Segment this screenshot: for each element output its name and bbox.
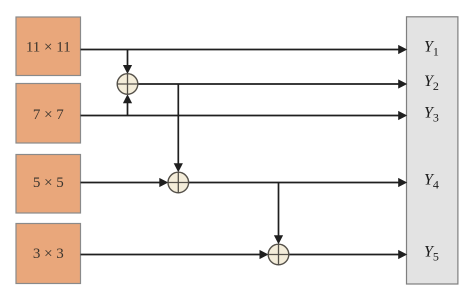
wire V2: rise from L2 into adder A1	[127, 103, 129, 116]
output panel	[407, 17, 458, 284]
adder A1	[117, 74, 138, 95]
wire L5: adder A3 output to Y5	[289, 254, 399, 256]
wire L3: adder A1 output to Y2	[138, 83, 399, 85]
arrow right into adder A3	[260, 250, 269, 259]
svg-text:11 × 11: 11 × 11	[26, 39, 71, 55]
wire L2: 7x7 output to Y3	[81, 115, 400, 117]
wire: 5x5 output into adder A2	[81, 182, 161, 184]
arrow right into adder A2	[159, 178, 168, 187]
arrow into Y3	[398, 111, 407, 120]
block 11x11	[16, 17, 81, 76]
arrow up into adder A1	[123, 94, 132, 103]
arrow down into adder A3	[274, 235, 283, 244]
arrow down into adder A1	[123, 65, 132, 74]
block 3x3	[16, 224, 81, 284]
arrow into Y2	[398, 79, 407, 88]
arrow into Y4	[398, 178, 407, 187]
arrow down into adder A2	[174, 163, 183, 172]
adder A3	[268, 244, 289, 265]
wire L1: 11x11 output to Y1	[81, 49, 400, 51]
svg-text:7 × 7: 7 × 7	[33, 107, 64, 123]
block 5x5	[16, 155, 81, 214]
wire V3: drop from L3 into adder A2	[177, 84, 179, 164]
wire L4: adder A2 output to Y4	[189, 182, 399, 184]
block 7x7	[16, 84, 81, 144]
adder A2	[168, 172, 189, 193]
wire V1: drop from L1 into adder A1	[127, 50, 129, 67]
arrow into Y1	[398, 45, 407, 54]
svg-text:3 × 3: 3 × 3	[33, 246, 64, 262]
wire: 3x3 output into adder A3	[81, 254, 261, 256]
arrow into Y5	[398, 250, 407, 259]
svg-text:5 × 5: 5 × 5	[33, 175, 64, 191]
wire V4: drop from L4 into adder A3	[278, 183, 280, 237]
